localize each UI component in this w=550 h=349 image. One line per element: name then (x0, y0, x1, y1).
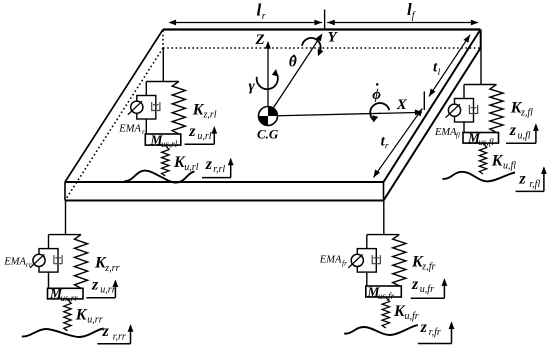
top bar rl (rear-left) (146, 81, 179, 83)
svg-text:u,fr: u,fr (420, 284, 434, 295)
unsprung mass box M_us,fr (366, 286, 402, 297)
svg-text:z: z (188, 123, 196, 140)
axis indicator z_u,fr (411, 297, 445, 299)
svg-text:X: X (396, 97, 408, 113)
EMA motor circle fr (front-right) (351, 254, 363, 266)
svg-text:z: z (420, 319, 428, 336)
svg-text:z: z (205, 156, 213, 173)
axis indicator z_r,rl (202, 177, 231, 179)
Y axis (268, 35, 322, 116)
wire strut fr (front-right) (383, 201, 385, 235)
wire EMA to mass fl (front-left) (463, 122, 465, 133)
svg-text:EMA: EMA (118, 124, 141, 135)
svg-text:u,fr: u,fr (405, 311, 419, 322)
plate right face bottom edge (384, 48, 481, 201)
plate top left edge (65, 30, 163, 183)
pitch rotation arc theta-dot (302, 38, 321, 54)
svg-text:r,fr: r,fr (429, 327, 441, 338)
svg-text:ϕ: ϕ (372, 87, 381, 103)
svg-text:r,fl: r,fl (529, 179, 540, 190)
plate front face right edge (383, 182, 385, 201)
svg-text:z,fr: z,fr (421, 261, 435, 272)
svg-text:u,fl: u,fl (518, 130, 531, 141)
svg-text:fr: fr (342, 258, 347, 267)
C.G symbol (259, 107, 278, 126)
road wave fr (344, 325, 418, 335)
top bar fl (front-left) (464, 84, 497, 86)
plate hidden far bottom edge (dotted) (163, 47, 481, 49)
EMA motor circle rl (rear-left) (131, 101, 143, 113)
tire spring K_u,rr (64, 299, 71, 331)
svg-text:z,rr: z,rr (104, 263, 119, 274)
wire EMA drop rl (rear-left) (145, 82, 147, 96)
suspension spring K_z,fl (490, 85, 503, 133)
suspension spring K_z,rr (74, 235, 87, 289)
svg-text:z,fl: z,fl (520, 108, 533, 119)
svg-text:l: l (438, 68, 441, 78)
svg-text:z: z (102, 323, 110, 340)
road wave fl (443, 172, 516, 182)
plate top right edge (384, 30, 481, 183)
unsprung mass box M_us,rl (145, 134, 181, 145)
wire EMA drop fr (front-right) (366, 235, 368, 249)
wire EMA to mass rr (rear-right) (48, 272, 50, 288)
unsprung mass box M_us,rr (48, 288, 84, 299)
wire EMA to mass fr (front-right) (366, 272, 368, 286)
svg-text:Y: Y (328, 30, 339, 46)
svg-text:us,rr: us,rr (61, 293, 79, 303)
plate right corner vertical edge (480, 30, 482, 49)
axis indicator z_u,rr (86, 297, 115, 299)
axis indicator z_r,fr (418, 343, 452, 345)
EMA damper fr (front-right) (372, 255, 380, 264)
axis indicator z_r,rr (97, 343, 130, 345)
dimension line t_l (429, 35, 470, 97)
X axis (268, 112, 421, 116)
EMA actuator box rl (rear-left) (137, 96, 156, 120)
svg-text:K: K (75, 306, 88, 323)
svg-text:us,fl: us,fl (479, 137, 495, 147)
dimension line l_r (170, 22, 323, 24)
svg-text:EMA: EMA (319, 254, 342, 265)
tire spring K_u,fl (479, 143, 486, 174)
axis indicator z_r,fl (516, 190, 544, 192)
svg-text:u,fl: u,fl (503, 161, 516, 172)
svg-text:r: r (385, 141, 389, 151)
EMA motor circle rr (rear-right) (33, 254, 45, 266)
plate front face bottom edge (65, 200, 384, 202)
tire spring K_u,rl (162, 145, 169, 176)
svg-text:EMA: EMA (434, 127, 457, 138)
svg-text:EMA: EMA (3, 257, 26, 268)
yaw rotation arc gamma (257, 71, 278, 89)
suspension spring K_z,rl (172, 82, 185, 135)
svg-text:f: f (412, 10, 416, 21)
wire EMA drop rr (rear-right) (48, 235, 50, 249)
suspension spring K_z,fr (393, 235, 406, 286)
wire EMA to mass rl (rear-left) (145, 119, 147, 134)
svg-text:r,rl: r,rl (213, 164, 225, 175)
dimension line l_f (327, 22, 478, 24)
dimension line t_r (374, 108, 423, 177)
Z axis (267, 43, 269, 117)
plate hidden edge vertical (dotted) (162, 31, 164, 49)
svg-text:u,rl: u,rl (184, 162, 198, 173)
top bar rr (rear-right) (49, 234, 82, 236)
EMA damper rr (rear-right) (54, 255, 62, 264)
svg-text:r,rr: r,rr (113, 331, 126, 342)
axis indicator z_u,fl (506, 142, 536, 144)
svg-text:rr: rr (26, 260, 32, 269)
svg-text:C.G: C.G (257, 127, 279, 142)
EMA motor circle fl (front-left) (448, 104, 460, 116)
EMA actuator box fl (front-left) (455, 99, 474, 123)
wire EMA drop fl (front-left) (463, 85, 465, 99)
svg-text:u,rr: u,rr (87, 314, 102, 325)
plate top near edge (65, 181, 384, 183)
unsprung mass box M_us,fl (463, 133, 499, 144)
EMA damper rl (rear-left) (152, 102, 160, 111)
EMA damper fl (front-left) (469, 105, 477, 114)
svg-text:z: z (509, 122, 517, 139)
wire strut fl (front-left) (480, 30, 482, 85)
svg-text:γ: γ (249, 79, 256, 95)
road wave rl (124, 171, 195, 183)
svg-text:z: z (411, 276, 419, 293)
tick at X axis on right edge (423, 92, 425, 111)
svg-text:z: z (518, 171, 526, 188)
tire spring K_u,fr (382, 297, 389, 328)
svg-text:us,rl: us,rl (161, 139, 178, 149)
roll rotation arc phi-dot (370, 103, 389, 120)
plate front face left edge (64, 182, 66, 201)
svg-text:K: K (491, 152, 504, 169)
svg-text:u,rl: u,rl (197, 131, 211, 142)
svg-text:fl: fl (456, 130, 460, 139)
wire strut rl (rear-left) (162, 48, 164, 82)
svg-text:us,fr: us,fr (378, 291, 395, 301)
svg-text:r: r (262, 11, 266, 22)
axis indicator z_u,rl (185, 143, 215, 145)
center tick between l_r and l_f (324, 10, 326, 30)
top bar fr (front-right) (367, 234, 400, 236)
road wave rr (22, 329, 104, 338)
plate top far edge (163, 28, 481, 30)
EMA actuator box rr (rear-right) (39, 249, 58, 273)
plate hidden left bottom edge (dotted) (65, 48, 163, 201)
svg-text:rl: rl (142, 127, 147, 136)
svg-text:Z: Z (255, 32, 265, 48)
EMA actuator box fr (front-right) (357, 249, 376, 273)
svg-text:z: z (91, 277, 99, 294)
svg-text:z,rl: z,rl (203, 110, 217, 121)
wire strut rr (rear-right) (65, 201, 67, 235)
